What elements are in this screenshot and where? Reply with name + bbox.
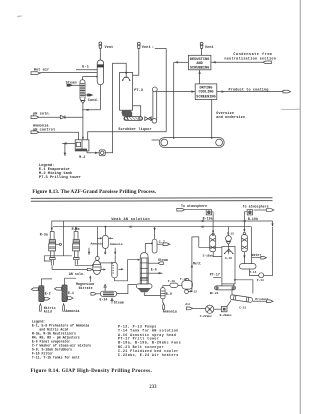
vent stack of scrubber <box>200 42 203 55</box>
wire condensate feed <box>211 61 271 64</box>
wire header H2 <box>53 226 252 264</box>
svg-text:BC-23: BC-23 <box>210 292 219 295</box>
pH adjuster R-4 <box>97 227 113 254</box>
wire header H1 weak AN solution <box>52 220 273 222</box>
page edge vertical line <box>299 0 301 414</box>
prill pile under tower <box>122 111 133 117</box>
wire pH soln line <box>39 116 83 118</box>
label Steam (E-24) <box>114 300 124 304</box>
label Magnesium Nitrate <box>76 282 94 290</box>
junction dots on belt <box>173 137 213 139</box>
svg-text:PT-3 Prilling tower: PT-3 Prilling tower <box>39 175 81 180</box>
wire melt riser to T-15 <box>188 237 222 292</box>
dedusting and scrubbing box <box>188 55 211 70</box>
page edge tick <box>281 108 300 110</box>
svg-text:E-1: E-1 <box>82 65 89 69</box>
stream arrow steam to E-6 <box>158 262 163 265</box>
wire E-1 bottom outlet <box>82 85 100 111</box>
svg-text:E-6: E-6 <box>151 268 157 272</box>
svg-text:Air: Air <box>185 302 190 306</box>
svg-text:Steam: Steam <box>158 258 168 262</box>
belt conveyor BC-23 <box>215 286 236 290</box>
melt tank T-15 <box>226 236 232 247</box>
wire drops to neutralizer tops <box>51 221 107 256</box>
svg-text:PT-17: PT-17 <box>210 273 220 277</box>
svg-text:Ammonia: Ammonia <box>91 242 104 246</box>
neutralizer R-3a <box>49 232 62 266</box>
wire dedusting to drying connector <box>198 70 200 84</box>
wire vent duct stub to stack <box>155 47 166 49</box>
condensate funnel <box>81 101 85 104</box>
label Vent (PT-3) <box>142 46 154 50</box>
svg-text:B-19a: B-19a <box>203 217 213 221</box>
wire product line <box>217 90 291 93</box>
svg-text:Cond.: Cond. <box>88 98 99 103</box>
svg-text:Vent: Vent <box>142 46 151 50</box>
fan B-19a <box>206 210 214 236</box>
svg-text:Figure 8.13. The AZF-Grand Par: Figure 8.13. The AZF-Grand Paroisse Pril… <box>32 189 157 195</box>
label Condensate from neutralization section <box>224 52 276 62</box>
stream arrow steam E-24 <box>111 298 113 303</box>
final evaporator E-6 <box>136 253 160 296</box>
svg-text:T-14: T-14 <box>249 271 256 274</box>
svg-text:To atmosphere: To atmosphere <box>243 205 269 209</box>
label Oversize and undersize <box>216 111 245 120</box>
stream arrow ammonia <box>31 131 39 134</box>
stream arrow to atmosphere left <box>177 208 207 211</box>
svg-text:Vent: Vent <box>205 46 214 50</box>
svg-text:B-20abc: B-20abc <box>220 313 232 317</box>
svg-text:Ammonia: Ammonia <box>110 242 123 246</box>
svg-text:Scrubber liquor: Scrubber liquor <box>118 127 151 132</box>
valve after screw conveyor <box>145 117 151 121</box>
fluidized bed cooler C-21 <box>230 295 253 303</box>
pump P-13 <box>259 273 273 278</box>
air heater E-24 <box>91 284 136 296</box>
preheater E-2 <box>31 286 50 302</box>
stream arrow E-6 condensate <box>148 272 163 274</box>
stream arrow pH soln <box>31 116 39 119</box>
stream arrow S-8 to R-5 <box>101 268 106 270</box>
stream arrow ammonia feed <box>63 304 65 312</box>
page smudge top-left <box>17 15 24 17</box>
wire ammonia line to M-2 <box>39 132 79 140</box>
svg-text:R-3b: R-3b <box>72 227 80 231</box>
wire melt riser to tower <box>105 63 126 153</box>
fan B-19b <box>243 210 252 235</box>
wire heater drain down to M-2 <box>82 103 84 140</box>
screw conveyor cylinder <box>124 117 143 121</box>
wire T-15 feed from header <box>227 227 229 236</box>
wire vent duct riser A <box>165 48 167 131</box>
svg-text:F-10: F-10 <box>168 280 175 283</box>
svg-text:Steam: Steam <box>114 300 124 304</box>
svg-text:Melt: Melt <box>193 262 201 266</box>
wire belt to cooler <box>231 289 233 295</box>
mixing tank M-2 <box>75 140 89 151</box>
svg-text:PT-3: PT-3 <box>134 89 143 93</box>
pump P (M-2 discharge) <box>99 150 105 156</box>
filter F-10 <box>170 283 182 287</box>
wire hot air line <box>40 71 97 73</box>
wire elevator to belt <box>152 139 160 141</box>
svg-text:T-15: T-15 <box>227 232 234 235</box>
wire scrubber liquor line <box>88 132 167 140</box>
wire hot air line lower <box>76 69 97 71</box>
scrubber S-18b <box>241 235 247 264</box>
valve on pH line <box>60 115 65 119</box>
stream arrow to atmosphere right <box>254 209 274 212</box>
pH adjuster R-9 <box>161 285 170 303</box>
svg-text:Condensate from: Condensate from <box>233 52 272 57</box>
drying cooling screening box <box>195 84 217 100</box>
svg-text:Water: Water <box>251 253 261 257</box>
wire AN soln line to S-8 <box>52 264 94 270</box>
stream arrow water <box>252 256 267 259</box>
svg-text:pH control: pH control <box>33 128 55 133</box>
wire tower air duct right <box>235 280 253 294</box>
svg-text:E-24: E-24 <box>100 297 108 301</box>
svg-text:R-3a: R-3a <box>40 232 48 236</box>
svg-text:Nitrate: Nitrate <box>79 286 93 290</box>
wire M-2 to pump <box>87 151 99 154</box>
svg-text:P-13: P-13 <box>257 279 264 282</box>
svg-text:T-11, T-15 Tanks for melt: T-11, T-15 Tanks for melt <box>32 355 80 359</box>
svg-text:Figure 8.14. GIAP High-Density: Figure 8.14. GIAP High-Density Prilling … <box>31 368 153 374</box>
svg-text:C-22abc: C-22abc <box>200 314 212 318</box>
acoustic spray head A-16 <box>224 246 234 254</box>
svg-text:Acid: Acid <box>44 310 52 314</box>
svg-text:A-16: A-16 <box>225 257 232 260</box>
svg-text:T-11: T-11 <box>180 278 187 281</box>
prilling tower PT-3 <box>120 72 133 110</box>
svg-text:P-12: P-12 <box>190 291 197 294</box>
belt conveyor <box>159 138 224 148</box>
svg-text:M-2: M-2 <box>79 155 85 159</box>
svg-text:S-18ab: S-18ab <box>203 254 214 258</box>
wire air line right side <box>272 227 274 276</box>
svg-text:COOLING: COOLING <box>198 91 213 95</box>
stream arrow steam <box>67 84 72 86</box>
svg-text:AN soln.: AN soln. <box>69 272 85 276</box>
separator S-8 <box>89 227 113 282</box>
neutralizer R-3b <box>73 232 80 265</box>
svg-text:Vent: Vent <box>105 46 114 50</box>
svg-text:C-21: C-21 <box>239 306 246 309</box>
svg-text:AND: AND <box>196 62 203 66</box>
washer C-7 <box>145 227 170 253</box>
bucket elevator <box>149 87 157 123</box>
vent stack of E-1 <box>99 42 102 60</box>
stream arrow air <box>186 307 205 310</box>
svg-text:233: 233 <box>149 385 157 390</box>
arrow to Cond <box>85 94 92 96</box>
wire elevator discharge to drying <box>157 90 195 92</box>
svg-text:SCRUBBING: SCRUBBING <box>190 66 209 70</box>
svg-text:C-22abc, E-24 Air heaters: C-22abc, E-24 Air heaters <box>118 353 179 357</box>
stream arrow product <box>253 300 273 303</box>
svg-text:E-2: E-2 <box>45 292 51 296</box>
vent stack of PT-3 <box>137 42 140 51</box>
scrubber S-18a <box>210 235 222 257</box>
spray head in PT-3 <box>122 72 131 81</box>
evaporator E-1 <box>97 60 103 85</box>
wire oversize return C <box>211 100 213 138</box>
prill tower PT-17 <box>222 246 235 284</box>
heater B-20abc <box>214 301 231 312</box>
wire H1 end drop arrow <box>271 221 273 227</box>
svg-text:E-1: E-1 <box>68 291 74 295</box>
wire M-2 drain down arrow <box>64 143 66 156</box>
fan C-22abc <box>206 305 214 313</box>
heat exchanger steam heater <box>80 76 98 101</box>
wire recycle piping left <box>41 256 76 286</box>
stream arrow ammonia to R-9 <box>163 303 165 309</box>
preheater E-1 (fig 8.14) <box>55 285 74 302</box>
wire M-2 left outlet arrow <box>62 142 75 144</box>
stream arrow R-5 out <box>118 268 124 270</box>
wire ammonia down arrows <box>88 248 116 256</box>
pump P-12 <box>185 290 189 294</box>
stream arrow nitric acid <box>40 304 42 312</box>
svg-text:Ammonia: Ammonia <box>163 310 177 314</box>
wire tower air duct left <box>213 277 221 279</box>
label Nitric Acid <box>44 306 56 313</box>
pH adjuster R-5 <box>112 255 141 281</box>
svg-text:SCREENING: SCREENING <box>196 95 215 99</box>
stream arrow hot air <box>31 72 40 75</box>
svg-text:C-7: C-7 <box>159 240 165 244</box>
tower hopper <box>222 279 236 286</box>
wire tower vent line <box>133 51 139 76</box>
svg-text:B-19b: B-19b <box>248 217 258 221</box>
melt tank T-11 <box>182 278 193 290</box>
svg-text:R-9: R-9 <box>166 292 172 296</box>
svg-text:To atmosphere: To atmosphere <box>181 204 207 208</box>
wire dedusting suction duct B <box>174 61 189 138</box>
wire tower bottom outlet right <box>133 106 141 117</box>
separator double rule <box>31 197 273 200</box>
tank T-14 <box>240 264 259 276</box>
svg-text:and undersize: and undersize <box>216 115 245 120</box>
svg-text:Ammonia: Ammonia <box>65 309 79 313</box>
